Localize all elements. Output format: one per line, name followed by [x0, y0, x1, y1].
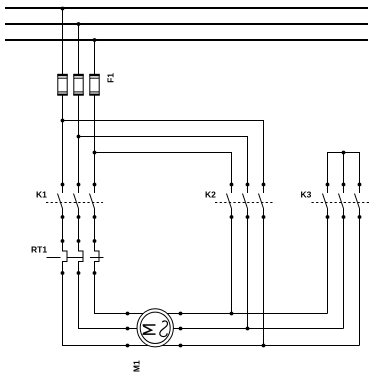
wire RT1 pole2 to motor line V [79, 273, 344, 329]
wire K3 pole3 riser [359, 217, 361, 346]
contactor K2 linkage (dashed) [215, 202, 273, 204]
motor M1 tilde [160, 321, 168, 337]
contactor K3 linkage (dashed) [312, 202, 370, 204]
node motor terminal W left [126, 344, 130, 348]
node branch L3 [93, 151, 97, 155]
wire RT1 pole1 to motor line W [63, 273, 360, 346]
node motor terminal W right [179, 344, 183, 348]
thermal relay RT1 linkage [47, 257, 104, 259]
bus line L2 [5, 23, 368, 25]
motor M1 body [137, 309, 173, 347]
wire L1 drop to fuse 1 [62, 8, 64, 75]
contactor K2 pole 2 [243, 183, 250, 219]
wire K2 pole2 drop [247, 217, 249, 329]
svg-text:RT1: RT1 [31, 244, 47, 254]
fuse F1 pole 3 [89, 74, 99, 96]
node branch L2 [77, 135, 81, 139]
contactor K3 pole 3 [355, 183, 362, 219]
thermal relay RT1 pole 3 [93, 239, 99, 275]
wire K1 pole2 to RT1 pole2 [78, 217, 80, 252]
wire branch to K2 pole3 [63, 121, 264, 194]
node L1 tap [61, 7, 65, 11]
wire fuse2 to K1 pole2 [78, 95, 80, 193]
svg-text:K2: K2 [205, 190, 216, 200]
thermal relay RT1 pole 2 [77, 239, 83, 275]
wire L2 drop to fuse 2 [78, 24, 80, 75]
node motor terminal V right [179, 327, 183, 331]
wire K3 pole2 riser [343, 217, 345, 329]
svg-text:M1: M1 [131, 360, 141, 372]
svg-text:F1: F1 [105, 73, 115, 83]
wire K2 pole3 drop [263, 217, 265, 346]
fuse F1 pole 1 [57, 74, 67, 96]
contactor K2 pole 1 [227, 183, 234, 219]
motor M1 letter M (rotated) [143, 325, 156, 334]
node K2 pole1 / line U [230, 312, 234, 316]
wire K2 pole1 drop [231, 217, 233, 314]
contactor K3 pole 1 [323, 183, 330, 219]
node L3 tap [93, 38, 97, 42]
node branch L1 [61, 119, 65, 123]
fuse F1 pole 2 [73, 74, 83, 96]
node motor terminal U left [126, 312, 130, 316]
node K3 star point [342, 151, 346, 155]
svg-text:K3: K3 [301, 190, 312, 200]
contactor K1 pole 3 [90, 183, 97, 219]
wire K3 pole1 riser [327, 217, 329, 314]
wire fuse1 to K1 pole1 [62, 95, 64, 193]
wire K3 star bridge [328, 153, 360, 194]
wire RT1 pole3 to motor line U [95, 273, 328, 314]
node motor terminal V left [126, 327, 130, 331]
svg-text:K1: K1 [36, 190, 47, 200]
wire K3 star center tap [343, 153, 345, 194]
contactor K1 pole 1 [58, 183, 65, 219]
node K2 pole2 / line V [246, 327, 250, 331]
contactor K1 pole 2 [74, 183, 81, 219]
node K2 pole3 / line W [262, 344, 266, 348]
contactor K1 linkage (dashed) [46, 202, 103, 204]
wire K1 pole1 to RT1 pole1 [62, 217, 64, 252]
bus line L3 [5, 39, 368, 41]
node motor terminal U right [179, 312, 183, 316]
thermal relay RT1 pole 1 [61, 239, 67, 275]
wire branch to K2 pole1 [95, 153, 232, 194]
wire K1 pole3 to RT1 pole3 [94, 217, 96, 252]
bus line L1 [5, 7, 368, 9]
contactor K3 pole 2 [339, 183, 346, 219]
wire L3 drop to fuse 3 [94, 40, 96, 75]
node L2 tap [77, 22, 81, 26]
wire branch to K2 pole2 [79, 137, 248, 194]
contactor K2 pole 3 [259, 183, 266, 219]
wire fuse3 to K1 pole3 [94, 95, 96, 193]
